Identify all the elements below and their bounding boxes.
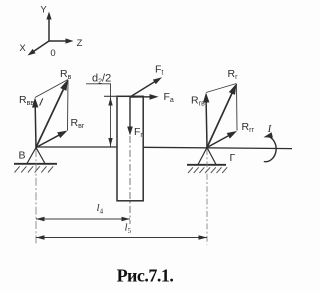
hatching under support B xyxy=(15,166,54,172)
shaft axis line left segment xyxy=(36,146,117,148)
support B triangle xyxy=(27,148,45,164)
axis X xyxy=(19,41,49,56)
tick mark near R_Bv xyxy=(40,98,43,105)
support B centerline / extension line xyxy=(35,149,37,244)
force F_r (radial, downward) xyxy=(127,97,133,136)
svg-text:Z: Z xyxy=(77,38,83,49)
gear disc rectangle xyxy=(117,96,143,201)
reaction vector R_B (resultant) xyxy=(36,80,68,148)
parallelogram side B right xyxy=(67,80,70,131)
extension tick at disc top xyxy=(104,95,118,97)
ground line under support B xyxy=(14,163,57,165)
reaction vector R_Gv (vertical) xyxy=(203,93,209,148)
svg-text:Г: Г xyxy=(230,152,236,164)
ground line under support G xyxy=(187,164,226,166)
parallelogram side B top xyxy=(35,80,68,98)
svg-text:B: B xyxy=(19,150,26,162)
force F_t (tangential, up-right) xyxy=(130,77,162,97)
axis Y xyxy=(40,5,51,42)
force F_a (axial, rightward) xyxy=(130,94,159,100)
dimension line l5 xyxy=(36,235,207,240)
axis Z xyxy=(49,38,83,49)
disc vertical centerline xyxy=(129,136,131,224)
hatching under support G xyxy=(188,167,227,173)
reaction vector R_G (resultant) xyxy=(207,84,237,148)
svg-text:0: 0 xyxy=(50,48,55,59)
svg-text:Y: Y xyxy=(40,5,47,16)
svg-text:X: X xyxy=(19,43,26,54)
parallelogram side G right xyxy=(236,84,239,131)
dimension line d2/2 (radius) xyxy=(108,84,112,147)
parallelogram side G top xyxy=(206,84,237,93)
leader underline for d2/2 xyxy=(86,83,111,85)
reaction vector R_Bg (horizontal component) xyxy=(36,131,68,148)
support G triangle xyxy=(198,148,216,165)
shaft axis line right segment xyxy=(143,147,292,148)
svg-text:Рис.7.1.: Рис.7.1. xyxy=(117,266,174,286)
reaction vector R_Gg (horizontal component) xyxy=(207,131,237,148)
dimension line l4 xyxy=(36,217,130,222)
support G centerline / extension line xyxy=(206,149,208,245)
reaction vector R_Bv (vertical) xyxy=(32,98,38,148)
torque arc at shaft end xyxy=(264,132,277,161)
